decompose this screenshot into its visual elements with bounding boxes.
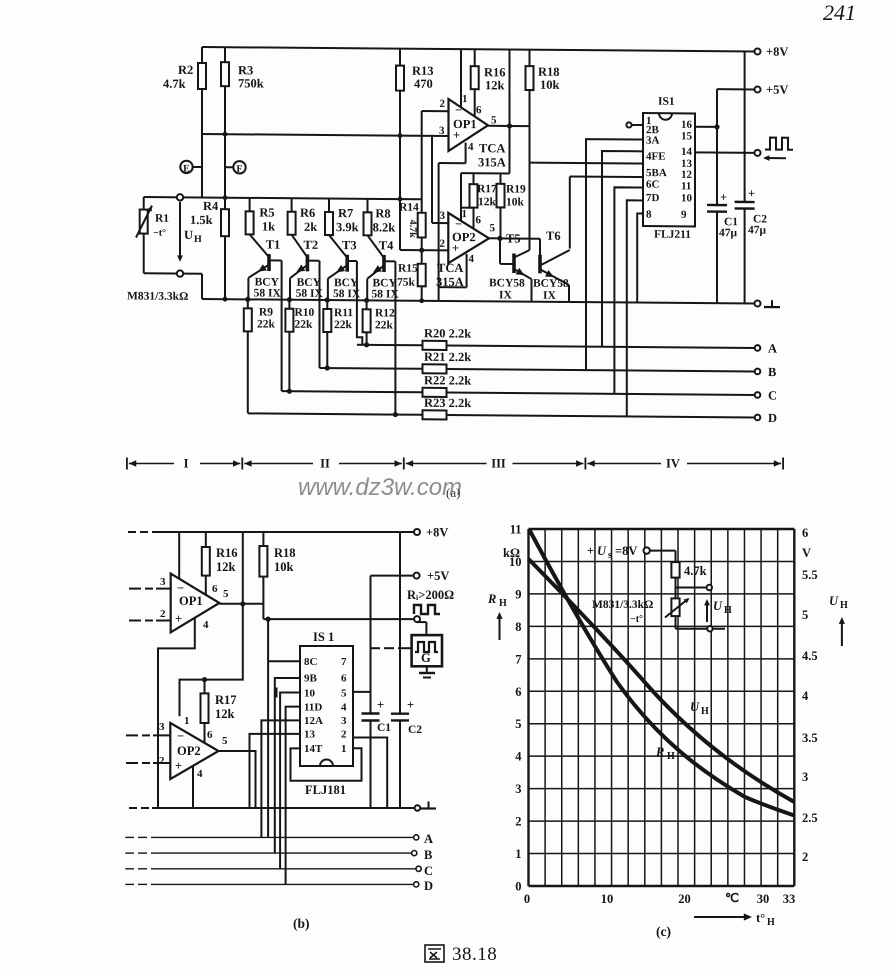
svg-text:5: 5 [802, 608, 808, 622]
svg-text:+: + [453, 128, 460, 142]
svg-text:A: A [424, 832, 433, 846]
svg-text:B: B [768, 365, 776, 379]
svg-text:U: U [829, 594, 839, 608]
wire output to sq terminal (b) [263, 618, 414, 620]
wire OP2 pin2 dashed (b) [126, 762, 138, 764]
wire T1 base [269, 259, 282, 261]
svg-text:R6: R6 [300, 206, 315, 220]
wire R17 bottom jog to OP2 pin1 [461, 207, 474, 209]
svg-text:R21 2.2k: R21 2.2k [424, 350, 471, 364]
wire pin 8 to rail [637, 213, 643, 302]
wire pin 11D to D (b) [286, 707, 300, 885]
svg-text:9B: 9B [304, 673, 318, 685]
svg-text:11: 11 [510, 523, 522, 537]
svg-text:13: 13 [304, 729, 316, 741]
svg-text:R3: R3 [238, 63, 253, 77]
wire OP2 pin4 (b) [192, 766, 194, 808]
node ground terminal [755, 300, 761, 306]
svg-text:7: 7 [515, 652, 521, 666]
wire pin 4FE [530, 162, 644, 165]
svg-text:−: − [177, 581, 184, 595]
svg-text:10: 10 [601, 892, 614, 906]
wire pin 9B to B (b) [275, 678, 300, 853]
svg-text:−t°: −t° [153, 228, 166, 239]
svg-text:6: 6 [515, 685, 521, 699]
svg-text:R23 2.2k: R23 2.2k [424, 396, 471, 410]
svg-text:3: 3 [341, 715, 347, 727]
inset resistor 4.7k [671, 562, 679, 578]
wire T3 base to R20 line [357, 261, 362, 345]
svg-text:+: + [748, 186, 755, 200]
IC IS1 FLJ181 (b) [300, 646, 353, 766]
resistor R17 [473, 173, 475, 184]
svg-text:=8V: =8V [615, 544, 637, 558]
svg-text:C2: C2 [408, 724, 422, 736]
svg-text:6C: 6C [646, 179, 659, 191]
curve UH [529, 559, 795, 802]
svg-text:9: 9 [681, 209, 687, 221]
svg-text:B: B [424, 848, 432, 862]
svg-text:5: 5 [515, 717, 521, 731]
inset node Us [644, 547, 650, 553]
svg-text:2: 2 [515, 815, 521, 829]
svg-text:3.9k: 3.9k [336, 220, 359, 234]
svg-text:4FE: 4FE [646, 151, 666, 163]
svg-text:2: 2 [160, 608, 166, 620]
svg-text:1: 1 [341, 743, 347, 755]
svg-text:6: 6 [212, 583, 218, 595]
svg-text:−: − [177, 729, 184, 743]
capacitor C1 (b) [370, 576, 372, 714]
svg-text:3: 3 [515, 782, 521, 796]
svg-text:10: 10 [304, 688, 316, 700]
svg-text:R: R [487, 592, 496, 606]
svg-text:s: s [608, 550, 612, 561]
wire pin 7D to D [627, 200, 643, 416]
svg-text:4: 4 [469, 253, 475, 265]
resistor R14 [421, 111, 423, 213]
svg-text:30: 30 [757, 892, 770, 906]
wire OP2 output [489, 237, 540, 239]
svg-text:5: 5 [222, 735, 228, 747]
svg-text:3: 3 [439, 125, 445, 137]
svg-text:12k: 12k [478, 196, 496, 208]
wire OP2 output (b) [219, 751, 256, 808]
svg-text:12: 12 [681, 169, 692, 181]
svg-text:F: F [236, 164, 242, 175]
ground under G [426, 666, 428, 673]
svg-text:R7: R7 [338, 206, 353, 220]
wire R11 bottom to R21 line [326, 332, 328, 368]
svg-text:H: H [667, 751, 675, 762]
svg-text:T3: T3 [342, 238, 357, 252]
svg-text:℃: ℃ [725, 891, 739, 905]
svg-text:9: 9 [515, 587, 521, 601]
svg-text:5: 5 [490, 222, 496, 234]
svg-text:t°: t° [756, 911, 765, 925]
inset arrow UH [706, 603, 708, 622]
inset thermistor M831 [671, 598, 679, 616]
svg-text:6: 6 [207, 729, 213, 741]
wire UH rail (R4-R8,R14 top) [144, 197, 422, 199]
svg-text:58 IX: 58 IX [254, 287, 282, 299]
node output A [755, 345, 761, 351]
wire T4 base [384, 260, 395, 262]
inset wire UH bottom [675, 616, 677, 629]
svg-text:www.dz3w.com: www.dz3w.com [298, 474, 462, 501]
resistor R5 [249, 198, 251, 212]
svg-text:4: 4 [197, 768, 203, 780]
svg-text:BCY58: BCY58 [489, 277, 525, 289]
svg-text:2k: 2k [304, 220, 317, 234]
node IS1 pin1 terminal [626, 122, 631, 127]
wire R18/OP1out col to 4FE and T5 collector [529, 163, 531, 251]
capacitor C2 47u [744, 51, 746, 202]
svg-text:4: 4 [341, 702, 347, 714]
svg-text:R15: R15 [398, 263, 418, 275]
resistor R23 [248, 413, 423, 414]
wire output D (b) [125, 883, 134, 885]
svg-text:R16: R16 [216, 546, 238, 560]
resistor R13 [399, 49, 401, 66]
arrow under terminal [766, 157, 786, 159]
svg-text:BCY58: BCY58 [533, 278, 569, 290]
svg-text:C: C [768, 389, 777, 403]
svg-text:+: + [377, 698, 384, 712]
figure (b) schematic group [125, 526, 454, 932]
svg-text:M831/3.3kΩ: M831/3.3kΩ [127, 290, 188, 302]
resistor R2 [201, 47, 203, 63]
svg-text:6: 6 [476, 104, 482, 116]
svg-text:3: 3 [802, 770, 808, 784]
wire pin 8C to A (b) [268, 619, 300, 661]
svg-text:R19: R19 [506, 183, 526, 195]
svg-text:T1: T1 [266, 238, 281, 252]
svg-text:IS1: IS1 [658, 96, 675, 108]
svg-text:4.7k: 4.7k [163, 77, 186, 91]
wire OP2 pin3 [431, 136, 433, 223]
svg-text:R2: R2 [178, 63, 193, 77]
svg-text:(a): (a) [446, 485, 460, 500]
resistor R6 [291, 198, 293, 212]
wire T1 base to R22 line [281, 260, 283, 391]
wire +8V rail (b) [128, 531, 136, 533]
wire pin 2B to B [586, 139, 643, 370]
svg-text:(b): (b) [293, 916, 310, 931]
wire R9 bottom to R23 line [247, 331, 249, 413]
svg-text:11: 11 [681, 180, 691, 192]
inset wire node UH top [675, 578, 677, 599]
svg-text:U: U [713, 599, 723, 613]
svg-text:22k: 22k [334, 319, 352, 331]
svg-text:R22 2.2k: R22 2.2k [424, 373, 471, 387]
svg-text:1: 1 [462, 208, 467, 220]
svg-text:T2: T2 [304, 238, 319, 252]
svg-text:14: 14 [681, 146, 692, 158]
wire R21 to output B [447, 369, 755, 371]
svg-text:D: D [768, 411, 777, 425]
svg-text:R10: R10 [295, 307, 315, 319]
wire R22 to output C [447, 392, 755, 394]
op-amp OP2 [448, 213, 489, 264]
svg-text:7D: 7D [646, 192, 659, 204]
ground symbol [771, 300, 773, 307]
svg-text:2: 2 [802, 850, 808, 864]
wire pin 13 (b) [250, 734, 301, 808]
svg-text:10k: 10k [506, 196, 524, 208]
curve RH [530, 530, 795, 816]
node +8V terminal (b) [414, 529, 420, 535]
capacitor C2 (b) [399, 532, 401, 714]
square wave symbol (b) [414, 605, 440, 614]
svg-text:Rᵢ>200Ω: Rᵢ>200Ω [407, 588, 454, 602]
node UH top [177, 194, 183, 200]
wire ground rail (b) [129, 807, 137, 809]
wire +8V to R17/R19 top [509, 49, 511, 173]
svg-text:H: H [724, 605, 732, 616]
svg-text:2: 2 [440, 98, 446, 110]
wire pin 12A to A col (b) [261, 720, 300, 837]
wire OP1 pin4 down (b) [158, 618, 195, 808]
svg-text:5: 5 [223, 588, 229, 600]
wire OP2 pin3 dashed (b) [126, 734, 138, 736]
wire pin 3A to A [602, 151, 643, 347]
svg-text:4.5: 4.5 [802, 649, 818, 663]
wire OP1 output (b) [219, 603, 263, 605]
svg-text:22k: 22k [295, 319, 313, 331]
wire pin 10 to C (b) [280, 693, 300, 869]
resistor R8 [367, 199, 369, 213]
svg-text:4: 4 [468, 141, 474, 153]
wire pin14 output [695, 151, 755, 153]
svg-text:III: III [491, 457, 506, 471]
svg-text:10k: 10k [540, 78, 559, 92]
svg-text:IV: IV [666, 457, 680, 471]
resistor R4 [221, 209, 229, 236]
svg-text:10k: 10k [274, 560, 294, 574]
svg-text:FLJ211: FLJ211 [654, 229, 691, 241]
wire pin 5 to C1 col (b) [353, 691, 371, 693]
op-amp OP1 (b) [171, 574, 220, 633]
generator G box [417, 621, 426, 623]
svg-text:20: 20 [678, 892, 691, 906]
svg-text:1.5k: 1.5k [190, 213, 213, 227]
resistor R21 [320, 367, 423, 370]
thermistor R1 [143, 197, 145, 210]
wire T4 base to R23 line [394, 261, 396, 414]
svg-text:U: U [690, 700, 700, 714]
svg-text:V: V [802, 546, 811, 560]
svg-text:II: II [320, 457, 330, 471]
svg-text:47μ: 47μ [748, 224, 766, 236]
svg-text:T5: T5 [506, 231, 521, 245]
svg-text:4: 4 [515, 750, 522, 764]
svg-text:8C: 8C [304, 656, 318, 668]
wire R23 to output D [447, 415, 755, 417]
svg-text:33: 33 [783, 892, 796, 906]
svg-text:U: U [597, 544, 607, 558]
resistor R10 [287, 297, 292, 302]
svg-text:M831/3.3kΩ: M831/3.3kΩ [592, 599, 653, 611]
svg-text:R8: R8 [375, 206, 390, 220]
svg-text:C1: C1 [377, 722, 391, 734]
capacitor C1 47u [716, 89, 718, 205]
resistor R3 [224, 47, 226, 62]
svg-text:8: 8 [646, 209, 652, 221]
svg-text:11D: 11D [304, 702, 322, 714]
svg-text:12A: 12A [304, 715, 323, 727]
svg-text:kΩ: kΩ [503, 546, 520, 560]
svg-text:OP2: OP2 [177, 744, 201, 758]
svg-text:8: 8 [515, 620, 521, 634]
wire +5V (b) [371, 575, 414, 577]
svg-text:4: 4 [203, 619, 209, 631]
resistor R18 [529, 50, 531, 67]
svg-text:0: 0 [515, 880, 521, 894]
svg-text:5: 5 [341, 688, 347, 700]
wire T2 base to R21 line [319, 261, 321, 368]
wire OP1 pin4 / OP2 pin4 to rail [465, 143, 467, 164]
svg-text:OP1: OP1 [179, 594, 203, 608]
svg-text:D: D [424, 879, 433, 893]
svg-text:IS 1: IS 1 [313, 630, 334, 644]
svg-text:2.5: 2.5 [802, 811, 818, 825]
svg-text:10: 10 [681, 192, 692, 204]
svg-text:75k: 75k [397, 277, 415, 289]
op-amp OP1 [449, 99, 489, 151]
svg-text:6: 6 [341, 673, 347, 685]
svg-text:R14: R14 [399, 202, 419, 214]
wire G left to +5V col [371, 647, 381, 649]
wire output A (b) [125, 836, 134, 838]
svg-text:FLJ181: FLJ181 [305, 783, 346, 797]
resistor R22 [282, 391, 423, 392]
op-amp OP2 (b) [170, 723, 218, 779]
node +5V terminal [755, 86, 761, 92]
grid vertical lines [527, 529, 529, 886]
wire output C (b) [125, 868, 134, 870]
wire pin 14T loop to pin1 (b) [291, 748, 362, 780]
svg-text:12k: 12k [485, 78, 504, 92]
svg-text:241: 241 [823, 0, 856, 25]
svg-text:H: H [194, 234, 202, 245]
svg-text:16: 16 [681, 119, 692, 131]
svg-text:H: H [840, 600, 848, 611]
svg-text:U: U [184, 228, 193, 242]
svg-text:7: 7 [341, 656, 347, 668]
svg-text:38.18: 38.18 [452, 944, 497, 965]
svg-text:8.2k: 8.2k [373, 220, 396, 234]
svg-text:IX: IX [543, 290, 556, 302]
svg-text:+: + [175, 759, 182, 773]
svg-text:H: H [499, 598, 507, 609]
svg-text:0: 0 [524, 892, 530, 906]
svg-text:R1: R1 [155, 213, 169, 225]
wire pin 6C to C [614, 187, 643, 394]
node +5V terminal (b) [414, 573, 420, 579]
wire T2 base [307, 260, 319, 262]
svg-text:T4: T4 [379, 238, 394, 252]
resistor R19 [500, 173, 502, 183]
svg-text:R17: R17 [215, 693, 237, 707]
caption fig 38.18 [425, 945, 444, 962]
node +8V terminal [755, 48, 761, 54]
svg-text:R17: R17 [477, 183, 497, 195]
svg-text:22k: 22k [257, 318, 275, 330]
node E [193, 166, 203, 168]
svg-text:3: 3 [160, 576, 166, 588]
svg-text:TCA: TCA [437, 261, 463, 275]
resistor R17 (b) [204, 680, 206, 694]
figure (c) graph group [487, 523, 848, 940]
svg-text:(c): (c) [656, 924, 671, 939]
svg-text:−t°: −t° [630, 614, 643, 625]
svg-text:G: G [421, 651, 431, 665]
svg-text:4.7k: 4.7k [407, 220, 418, 239]
resistor R11 [325, 297, 330, 302]
svg-text:R4: R4 [203, 199, 219, 213]
svg-text:5.5: 5.5 [802, 568, 818, 582]
square wave symbol [765, 138, 793, 150]
svg-text:2: 2 [440, 238, 446, 250]
wire OP1 power stub [178, 532, 180, 579]
wire pin 2 down to rail (b) [353, 738, 387, 809]
wire OP1 pin2 dashed [129, 620, 141, 622]
wire R1 bottom [144, 272, 202, 274]
svg-text:1k: 1k [262, 219, 275, 233]
svg-text:+: + [452, 241, 459, 255]
svg-text:R: R [655, 745, 664, 759]
section dimension line I II III IV [126, 458, 128, 470]
svg-text:470: 470 [414, 77, 433, 91]
node sq-wave terminal [755, 150, 761, 156]
resistor R15 [418, 264, 426, 287]
svg-text:3A: 3A [646, 135, 659, 147]
wire OP1 output [488, 125, 530, 127]
svg-text:H: H [701, 706, 709, 717]
resistor R16 [474, 49, 476, 66]
svg-text:3: 3 [159, 721, 165, 733]
svg-text:+: + [720, 190, 727, 204]
svg-text:T6: T6 [546, 229, 561, 243]
svg-text:TCA: TCA [479, 141, 505, 155]
svg-text:I: I [184, 457, 189, 471]
svg-text:R9: R9 [259, 306, 273, 318]
svg-text:+8V: +8V [766, 45, 788, 59]
wire +5V [717, 88, 755, 90]
ground symbol (b) [428, 802, 430, 809]
wire pin16 to +5V col [695, 126, 717, 128]
svg-text:A: A [768, 342, 777, 356]
wire OP1 pin1 to +8V [460, 49, 462, 107]
node output C [755, 392, 761, 398]
svg-text:R20 2.2k: R20 2.2k [424, 326, 471, 340]
resistor R12 [364, 298, 369, 303]
resistor R9 [245, 297, 250, 302]
svg-text:H: H [767, 917, 775, 928]
svg-text:3: 3 [440, 210, 446, 222]
svg-text:+: + [587, 544, 594, 558]
resistor R16 (b) [205, 532, 207, 547]
svg-text:12k: 12k [216, 560, 236, 574]
svg-text:1: 1 [462, 93, 467, 105]
svg-text:R5: R5 [259, 205, 274, 219]
svg-text:3.5: 3.5 [802, 731, 818, 745]
wire pin 5BA to T6 collector [570, 175, 643, 178]
svg-text:+: + [175, 612, 182, 626]
node sq-wave output terminal (b) [414, 616, 420, 622]
wire R10 bottom to R22 line [288, 332, 290, 392]
